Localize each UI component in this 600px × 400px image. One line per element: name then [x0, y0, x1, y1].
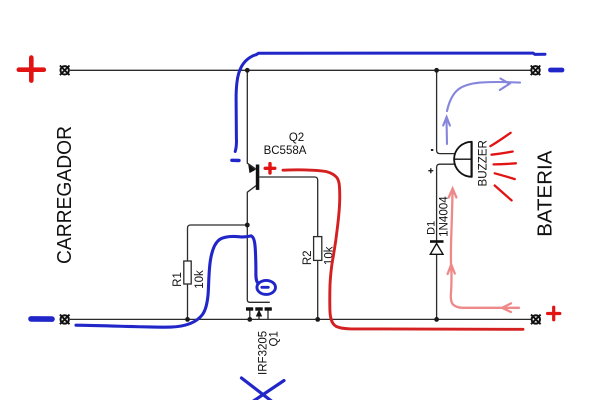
svg-text:1N4004: 1N4004 [437, 196, 450, 237]
svg-text:Q1: Q1 [268, 331, 280, 346]
svg-text:10k: 10k [194, 270, 206, 289]
svg-text:BUZZER: BUZZER [477, 140, 490, 186]
svg-text:D1: D1 [426, 221, 438, 235]
svg-text:Q2: Q2 [289, 132, 304, 144]
svg-text:BATERIA: BATERIA [534, 150, 557, 237]
svg-text:R1: R1 [172, 272, 184, 287]
svg-text:BC558A: BC558A [264, 145, 307, 157]
svg-text:R2: R2 [302, 250, 314, 265]
svg-text:CARREGADOR: CARREGADOR [53, 126, 76, 264]
